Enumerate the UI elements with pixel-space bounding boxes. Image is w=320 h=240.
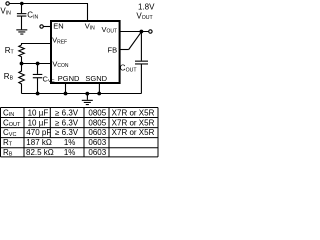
wire FB pin [120,49,129,51]
svg-text:0805: 0805 [88,118,106,127]
wire PGND pin stem [65,83,67,94]
wire CIN ground lead [21,17,23,30]
wire ground stub [86,94,88,100]
svg-text:CVC: CVC [3,128,16,138]
svg-text:≥ 6.3V: ≥ 6.3V [55,118,79,127]
svg-text:VREF: VREF [52,36,67,46]
svg-text:≥ 6.3V: ≥ 6.3V [55,128,79,137]
svg-text:1%: 1% [64,148,76,157]
svg-text:RT: RT [5,46,15,56]
wire VOUT pin [120,31,149,33]
svg-text:82.5 kΩ: 82.5 kΩ [26,148,54,157]
svg-text:VOUT: VOUT [102,25,118,35]
wire CVC bottom lead [37,78,39,93]
node junction ground stub [85,92,89,96]
wire ground rail [22,93,142,95]
wire VIN pin stem [87,4,89,21]
svg-text:470 pF: 470 pF [26,128,51,137]
wire COUT bottom lead [140,65,142,94]
svg-text:RT: RT [3,138,13,148]
svg-text:RB: RB [3,148,13,158]
svg-text:VOUT: VOUT [136,12,153,22]
svg-text:≥ 6.3V: ≥ 6.3V [55,108,79,117]
svg-text:X7R or X5R: X7R or X5R [112,108,155,117]
node EN terminal circle [40,25,43,28]
node junction CVC/rail [36,92,40,96]
svg-text:X7R or X5R: X7R or X5R [112,118,155,127]
node VOUT output terminal [149,30,152,33]
svg-text:SGND: SGND [85,74,107,83]
wire COUT top lead [140,32,142,61]
ground under CIN [16,29,27,34]
svg-text:COUT: COUT [120,64,138,74]
svg-text:CIN: CIN [3,108,14,118]
svg-text:RB: RB [4,72,14,82]
wire VREF pin to RT [22,44,51,46]
wire SGND pin stem [98,83,100,94]
node junction VOUT [140,30,144,34]
wire VIN rail top [9,3,88,5]
label table row COUT [3,118,155,128]
wire FB feedback diagonal [129,32,142,50]
svg-text:1%: 1% [64,138,76,147]
node VIN input terminal [6,2,9,5]
svg-text:PGND: PGND [58,74,80,83]
svg-text:CIN: CIN [27,11,38,21]
capacitor CVC [33,74,43,78]
wire CVC top lead [37,64,39,74]
svg-text:10 µF: 10 µF [28,118,49,127]
svg-text:VIN: VIN [85,22,95,32]
ground main [82,100,93,105]
node junction RT/RB/VCON [20,62,24,66]
op-amp U1 regulator IC box [51,21,120,83]
table component values frame [1,108,159,157]
svg-text:FB: FB [108,46,118,55]
resistor RT [19,45,25,62]
svg-text:0603: 0603 [88,138,106,147]
capacitor CIN [17,13,27,17]
svg-text:10 µF: 10 µF [28,108,49,117]
capacitor COUT [135,61,148,65]
svg-text:VCON: VCON [52,60,69,70]
wire CIN top lead [21,4,23,14]
wire EN pin [43,26,50,28]
wire VCON pin [22,63,51,65]
svg-text:COUT: COUT [3,118,21,128]
svg-text:VIN: VIN [0,7,11,17]
svg-text:0603: 0603 [88,148,106,157]
resistor RB [19,64,25,94]
node junction PGND/rail [64,92,68,96]
node junction CVC tap [36,62,40,66]
node junction CIN tap [20,2,24,6]
node junction SGND/rail [97,92,101,96]
label table row RB [3,148,107,158]
svg-text:CVC: CVC [43,75,56,85]
svg-text:X7R or X5R: X7R or X5R [112,128,155,137]
svg-text:187 kΩ: 187 kΩ [26,138,52,147]
label table row CVC [3,128,155,138]
svg-text:EN: EN [53,22,63,31]
svg-text:1.8V: 1.8V [138,3,155,12]
svg-text:0603: 0603 [88,128,106,137]
label table row RT [3,138,107,148]
label table row CIN [3,108,155,118]
svg-text:0805: 0805 [88,108,106,117]
